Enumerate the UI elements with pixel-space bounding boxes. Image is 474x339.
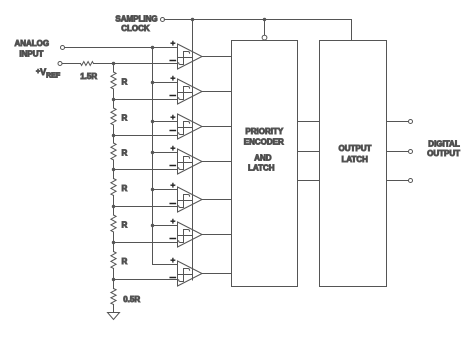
label ANALOG INPUT [14, 39, 49, 59]
wire comparator U3 output [202, 126, 232, 128]
comparator U1 [170, 41, 202, 69]
junction analog to U6 [151, 224, 154, 227]
wire clock drop to output latch [351, 20, 353, 41]
svg-text:OUTPUT: OUTPUT [427, 149, 460, 158]
svg-text:R: R [122, 257, 128, 266]
wire comparator U3 minus input [114, 135, 178, 137]
analog input terminal [61, 46, 65, 50]
label DIGITAL OUTPUT [427, 140, 460, 158]
wire ladder segment 1 lower [113, 89, 115, 100]
wire comparator U4 output [202, 161, 232, 163]
wire comparator U5 minus input [114, 206, 178, 208]
wire ladder segment 1 upper [113, 64, 115, 73]
wire comparator U2 plus input [153, 82, 178, 84]
junction analog distribution top [151, 46, 154, 49]
comparator U7 [170, 258, 202, 286]
wire comparator U1 plus input [153, 47, 178, 49]
wire comparator U4 plus input [153, 152, 178, 154]
wire encoder to latch bit 3 [298, 180, 320, 182]
wire comparator U7 output [202, 273, 232, 275]
resistor R2 [111, 108, 116, 125]
junction clock to encoder [263, 18, 266, 21]
svg-text:ANALOG: ANALOG [14, 39, 49, 48]
svg-text:1.5R: 1.5R [80, 72, 97, 81]
Vref terminal [58, 62, 62, 66]
resistor R6 [111, 252, 116, 269]
svg-text:LATCH: LATCH [248, 164, 275, 173]
wire tap7 to resistor 0.5R [113, 280, 115, 289]
svg-text:ENCODER: ENCODER [244, 137, 284, 146]
label output latch [339, 144, 372, 164]
wire output bit 3 [387, 180, 409, 182]
wire comparator U5 output [202, 199, 232, 201]
wire output bit 1 [387, 121, 409, 123]
ground [108, 313, 120, 320]
wire 1.5R to ladder [94, 63, 114, 65]
junction analog to U4 [151, 151, 154, 154]
junction ladder tap 6 [112, 241, 115, 244]
resistor R4 [111, 179, 116, 196]
wire clock distribution vertical [192, 20, 194, 281]
wire comparator U1 output [202, 56, 232, 58]
wire comparator U6 output [202, 234, 232, 236]
junction ladder tap 3 [112, 134, 115, 137]
junction analog to U2 [151, 81, 154, 84]
wire sampling clock horizontal [164, 19, 351, 21]
svg-text:R: R [122, 184, 128, 193]
wire ladder segment 4 upper [113, 170, 115, 179]
wire comparator U2 output [202, 91, 232, 93]
label priority encoder [244, 127, 284, 173]
wire comparator U7 plus input [153, 264, 178, 266]
svg-text:CLOCK: CLOCK [121, 24, 150, 33]
svg-text:R: R [122, 149, 128, 158]
wire comparator U2 minus input [114, 99, 178, 101]
comparator U5 [170, 183, 202, 212]
wire ladder segment 2 lower [113, 125, 115, 136]
wire ladder segment 5 upper [113, 207, 115, 216]
label SAMPLING CLOCK [115, 15, 157, 33]
svg-text:SAMPLING: SAMPLING [115, 15, 157, 24]
comparator U4 [170, 146, 202, 174]
wire comparator U3 plus input [153, 121, 178, 123]
wire comparator U5 plus input [153, 189, 178, 191]
resistor 0.5R [111, 289, 116, 305]
comparator U3 [170, 114, 202, 139]
wire Vref to resistor 1.5R [62, 63, 81, 65]
svg-text:0.5R: 0.5R [123, 295, 140, 304]
svg-text:+VREF: +VREF [36, 67, 61, 80]
wire comparator U7 minus input [114, 279, 178, 281]
digital output terminal 3 [409, 179, 413, 183]
wire comparator U1 minus input [114, 63, 178, 65]
wire encoder to latch bit 2 [298, 151, 320, 153]
svg-text:LATCH: LATCH [341, 155, 368, 164]
junction clock to comparator ladder [191, 18, 194, 21]
svg-text:INPUT: INPUT [19, 50, 43, 59]
svg-text:OUTPUT: OUTPUT [339, 144, 372, 153]
sampling clock input terminal [161, 18, 165, 22]
digital output terminal 1 [409, 120, 413, 124]
priority encoder block [232, 41, 298, 287]
resistor R5 [111, 215, 116, 232]
wire clock drop to encoder bubble [264, 20, 266, 36]
wire ladder segment 2 upper [113, 100, 115, 109]
junction analog to U5 [151, 188, 154, 191]
svg-text:R: R [122, 78, 128, 87]
svg-text:PRIORITY: PRIORITY [245, 127, 283, 136]
digital output terminal 2 [409, 150, 413, 154]
comparator U6 [170, 219, 202, 247]
wire encoder to latch bit 1 [298, 121, 320, 123]
junction ladder tap 2 [112, 98, 115, 101]
wire comparator U6 plus input [153, 225, 178, 227]
junction ladder tap 1 [112, 62, 115, 65]
junction ladder tap 7 [112, 278, 115, 281]
wire 0.5R to ground [113, 305, 115, 313]
junction analog to U3 [151, 120, 154, 123]
clock inverter bubble on encoder [262, 35, 267, 40]
wire output bit 2 [387, 151, 409, 153]
svg-text:AND: AND [254, 153, 272, 162]
resistor R3 [111, 143, 116, 160]
svg-text:R: R [122, 221, 128, 230]
comparator U2 [170, 76, 202, 104]
resistor 1.5R [81, 62, 94, 66]
wire ladder segment 4 lower [113, 196, 115, 207]
wire ladder segment 6 upper [113, 243, 115, 252]
svg-text:DIGITAL: DIGITAL [428, 140, 460, 149]
wire analog distribution vertical [153, 48, 178, 265]
wire ladder segment 6 lower [113, 269, 115, 280]
svg-text:R: R [122, 114, 128, 123]
wire ladder segment 3 lower [113, 160, 115, 170]
wire comparator U6 minus input [114, 242, 178, 244]
output latch block [320, 41, 387, 287]
junction ladder tap 5 [112, 205, 115, 208]
wire analog input horizontal [65, 47, 178, 49]
wire comparator U4 minus input [114, 169, 178, 171]
wire ladder segment 3 upper [113, 136, 115, 144]
wire ladder segment 5 lower [113, 232, 115, 243]
resistor R1 [111, 72, 116, 89]
junction ladder tap 4 [112, 168, 115, 171]
